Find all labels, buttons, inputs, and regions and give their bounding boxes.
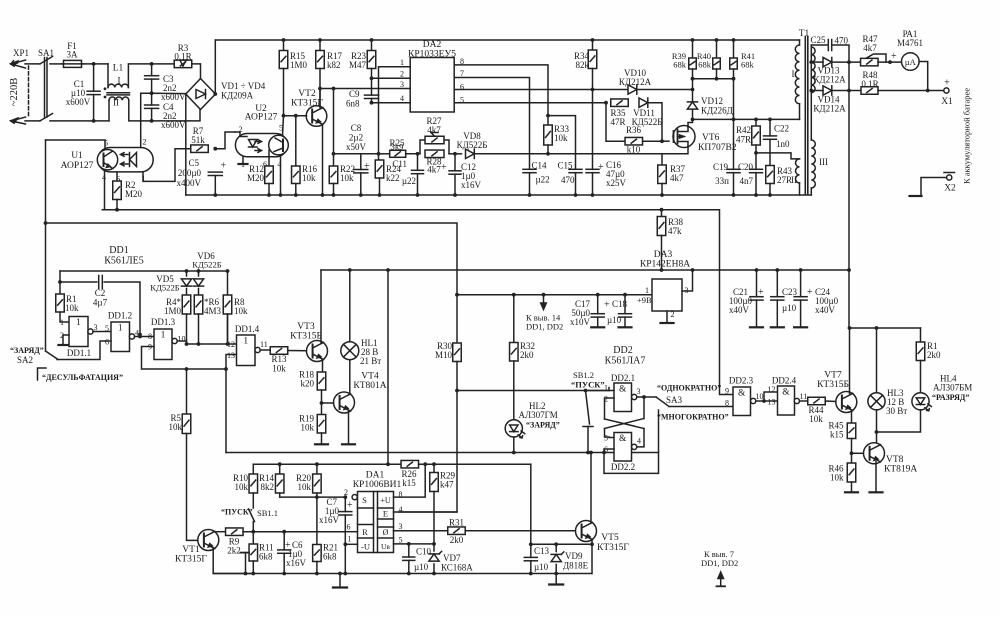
svg-text:3: 3 <box>637 387 641 396</box>
svg-text:DD1: DD1 <box>109 245 128 256</box>
label R5 value <box>169 422 183 432</box>
wire R41 top <box>733 40 735 58</box>
capacitor C11 <box>412 170 424 173</box>
svg-text:7: 7 <box>460 69 464 78</box>
label R26 <box>401 469 417 479</box>
junction R4 bottom <box>185 342 189 346</box>
svg-text:DD1, DD2: DD1, DD2 <box>701 558 738 568</box>
wire VD5 top <box>186 271 188 276</box>
wire R42 bottom <box>755 145 757 169</box>
label DD2 type <box>605 356 646 367</box>
svg-text:КД209А: КД209А <box>221 91 254 101</box>
junction HL3 top <box>875 326 879 330</box>
junction VD12 top <box>691 88 695 92</box>
resistor R47 <box>861 58 879 66</box>
wire +9V line <box>457 294 652 296</box>
label R16 <box>302 164 318 174</box>
svg-text:8: 8 <box>725 399 729 408</box>
svg-text:2µ2: 2µ2 <box>349 133 363 143</box>
wire R32 to HL2 <box>513 361 515 420</box>
svg-text:М20: М20 <box>247 173 265 183</box>
wire L1 bottom entry <box>108 100 110 121</box>
junction R37 bottom <box>660 193 664 197</box>
wire T1 sec to III <box>810 91 812 141</box>
label R45 value <box>830 430 844 440</box>
label DA3 <box>654 250 673 260</box>
svg-text:DD2.2: DD2.2 <box>611 462 635 472</box>
wire VT5 emitter <box>591 540 593 574</box>
wire DD1.3 pin9 <box>142 347 227 370</box>
capacitor C24 <box>794 297 807 300</box>
resistor R16 <box>292 166 301 184</box>
wire DA1 pin5 <box>394 543 435 545</box>
wire R45 bottom <box>851 439 853 454</box>
label R37 <box>670 164 686 174</box>
wire to VT6 gate <box>662 140 669 142</box>
label T1 winding II <box>791 175 797 185</box>
capacitor C4 <box>145 105 159 108</box>
wire VD8 to R33 <box>475 153 549 155</box>
wire R34 to line <box>592 69 594 90</box>
label C18 plus <box>604 300 610 311</box>
label C22 value <box>776 139 790 149</box>
svg-text:x40V: x40V <box>815 305 836 315</box>
junction R29 top <box>432 462 436 466</box>
junction VD7 bottom <box>432 572 436 576</box>
transistor VT1 <box>198 530 219 551</box>
wire R46 bottom <box>851 482 853 492</box>
junction stub bottom <box>244 572 248 576</box>
junction C3 C4 mid <box>150 91 154 95</box>
wire R48 out <box>878 90 944 92</box>
svg-text:+: + <box>441 162 447 173</box>
label R26 value <box>402 478 416 488</box>
resistor R6 <box>194 295 203 314</box>
svg-text:1М0: 1М0 <box>164 306 182 316</box>
capacitor C12 <box>449 171 461 174</box>
label DD2.1 pin1 <box>604 384 608 393</box>
svg-text:КТ801А: КТ801А <box>353 381 386 391</box>
svg-text:8: 8 <box>148 332 152 341</box>
label mnogokratno <box>657 413 729 422</box>
label SA3 <box>666 395 683 405</box>
label C20 <box>738 162 754 172</box>
svg-text:10k: 10k <box>234 306 248 316</box>
svg-text:47R: 47R <box>736 135 751 145</box>
label K vyv 7b <box>701 558 738 568</box>
label R1r value <box>927 350 941 360</box>
junction R34 top <box>591 38 595 42</box>
capacitor C3 <box>145 76 159 79</box>
wire R17 bottom <box>319 69 321 107</box>
label R21 <box>323 543 338 553</box>
label DD2.1 pin3 <box>637 387 641 396</box>
label R21 value <box>323 552 337 562</box>
wire HL2 bottom <box>513 437 515 453</box>
label R33 value <box>554 133 568 143</box>
label DA2 pin1 <box>400 58 404 67</box>
wire C7 bottom <box>344 515 346 574</box>
wire C4 top <box>151 93 153 105</box>
label C13 <box>534 546 550 556</box>
svg-text:&: & <box>619 434 627 444</box>
junction C18 top <box>623 293 627 297</box>
label C3 value2 <box>161 92 186 102</box>
label VT4 <box>361 372 379 382</box>
junction pin8 rail <box>423 462 427 466</box>
wire C8 top <box>360 154 362 170</box>
label R24 value <box>386 173 400 183</box>
label DD1 type <box>104 256 144 267</box>
label HL3 value2 <box>886 406 907 416</box>
label R28 value <box>427 165 441 175</box>
junction R34 bottom <box>591 88 595 92</box>
wire R34 top <box>592 40 594 50</box>
svg-text:+9В: +9В <box>637 295 652 305</box>
wire U2 pin2 <box>235 132 247 137</box>
wire C2 drop joint <box>139 335 141 337</box>
label R44 value <box>809 414 823 424</box>
svg-text:II: II <box>791 175 797 185</box>
label DD2.3 pin10 <box>756 392 764 401</box>
resistor R28 <box>425 150 444 158</box>
junction branch rail <box>386 462 390 466</box>
wire C16 bottom <box>592 173 594 195</box>
junction emitter tee <box>590 542 594 546</box>
svg-text:DD2: DD2 <box>613 345 632 356</box>
resistor R31 <box>448 527 466 535</box>
wire C10 top <box>408 544 410 557</box>
wire SB1.2 bottom <box>587 427 589 453</box>
label R47 <box>862 34 878 44</box>
wire DA2 pin6 <box>454 89 629 91</box>
svg-text:µА: µА <box>905 57 917 67</box>
label R35 <box>610 108 626 118</box>
resistor R22 <box>329 166 338 184</box>
capacitor C10 <box>403 557 415 560</box>
wire SA2 to DD1.2 <box>57 341 111 360</box>
label DA2 pin4 <box>400 94 404 103</box>
label R48 value <box>861 79 878 89</box>
label R1r <box>927 341 938 351</box>
junction R11 bottom <box>251 572 255 576</box>
transformer T1 core <box>805 37 808 195</box>
wire DA2 pin5 <box>454 102 606 104</box>
label C14 <box>532 161 548 171</box>
wire R17 top <box>319 40 321 51</box>
svg-text:VD12: VD12 <box>701 96 723 106</box>
junction C2 to gate line <box>138 333 142 337</box>
inductor L1 core <box>107 93 130 95</box>
terminal X2 <box>944 173 955 181</box>
wire VT4 emitter <box>348 411 350 444</box>
label DD2 <box>613 345 632 356</box>
label R32 <box>520 341 535 351</box>
svg-text:C22: C22 <box>774 124 789 134</box>
svg-text:2: 2 <box>143 138 147 147</box>
diode VD13 <box>823 57 832 66</box>
label VD10 type <box>619 77 652 87</box>
label U2 <box>255 104 267 114</box>
wire DA1 pin6 line <box>345 531 357 533</box>
label C19 <box>713 162 729 172</box>
label R14 value <box>261 482 275 492</box>
label PA1 type <box>897 38 923 48</box>
junction R41 bar <box>732 77 736 81</box>
capacitor C21 <box>750 297 763 300</box>
wire C1 bottom <box>93 95 95 121</box>
wire VT7 collector <box>849 328 851 394</box>
wire C23 top <box>776 270 778 297</box>
wire C2 right <box>104 282 140 335</box>
junction C21 top <box>755 268 759 272</box>
wire R15 top <box>283 40 285 51</box>
junction C5 bottom <box>213 193 217 197</box>
resistor R39 <box>689 58 697 69</box>
wire R19 bottom <box>321 433 323 444</box>
label HL2 zaryad <box>526 421 560 430</box>
gate DD2.3 <box>733 387 756 416</box>
label R19 value <box>301 423 315 433</box>
wire DD2.1 pin1 <box>609 388 614 391</box>
wire rail to 328 <box>848 270 850 328</box>
wire VT2 collector line <box>320 88 410 90</box>
label R40 value <box>698 60 712 70</box>
junction SB1.2 top <box>584 389 588 393</box>
resistor R37 <box>658 165 667 184</box>
junction pin13 node <box>224 367 228 371</box>
svg-text:Ø: Ø <box>383 528 389 537</box>
capacitor C20 <box>750 169 763 172</box>
svg-text:~220В: ~220В <box>9 78 20 106</box>
wire C6 top <box>283 532 285 550</box>
svg-text:µ10: µ10 <box>414 562 429 572</box>
wire left rail <box>45 140 47 351</box>
resistor R21 <box>313 545 322 562</box>
label DD1.4 <box>235 324 260 334</box>
svg-text:3: 3 <box>94 323 98 332</box>
diode VD5 <box>181 279 191 286</box>
resistor R11 <box>249 544 257 561</box>
svg-text:+: + <box>807 287 813 298</box>
resistor R23 <box>367 51 376 69</box>
label R5 <box>170 413 181 423</box>
label R46 <box>828 464 844 474</box>
label R43 value <box>777 175 792 185</box>
diode VD6 <box>193 279 203 286</box>
label R17 <box>327 51 343 61</box>
label C15 <box>558 161 574 171</box>
svg-text:DD2.1: DD2.1 <box>611 373 635 383</box>
label C13 value <box>534 562 549 572</box>
wire R13 to VT3 <box>288 350 307 352</box>
junction C10 bottom <box>407 572 411 576</box>
label C24 value <box>815 296 839 306</box>
svg-text:DD1.1: DD1.1 <box>67 348 91 358</box>
wire DD2.3 out <box>756 400 764 402</box>
wire mid bus <box>226 452 659 454</box>
wire C3 top <box>151 64 153 76</box>
label C3 value <box>163 83 177 93</box>
wire C4 bottom <box>151 108 153 121</box>
gate DD1.3 <box>154 329 177 360</box>
svg-text:6k8: 6k8 <box>259 552 273 562</box>
label VD9 type <box>563 561 589 571</box>
junction R22 node <box>332 87 336 91</box>
svg-text:x16V: x16V <box>319 515 340 525</box>
label VD1-VD4 type <box>221 91 254 101</box>
label odnokratno <box>657 384 721 393</box>
label R14 <box>259 473 275 483</box>
label C22 <box>774 124 789 134</box>
wire C25 out <box>833 45 849 62</box>
svg-text:VT4: VT4 <box>361 372 379 382</box>
wire R23 to C9 <box>371 78 373 95</box>
label R38 value <box>668 226 682 236</box>
resistor R29 <box>430 473 439 492</box>
resistor R30 <box>453 343 462 362</box>
svg-text:К аккумуляторной батарее: К аккумуляторной батарее <box>962 88 972 184</box>
junction R16 bottom <box>294 193 298 197</box>
capacitor C7 <box>339 512 352 515</box>
svg-text:2: 2 <box>671 310 675 319</box>
label R41 <box>741 51 755 61</box>
wire R15 bottom <box>283 69 285 116</box>
label HL4 <box>940 374 957 384</box>
label HL1 <box>361 338 378 348</box>
resistor R27 <box>425 133 444 144</box>
wire R22 top link <box>333 89 335 167</box>
junction R8 top <box>226 269 230 273</box>
wire C20 bottom <box>755 173 757 195</box>
connector XP1 arrowheads <box>11 61 18 123</box>
label R25 value <box>391 142 404 152</box>
resistor R48 <box>861 87 878 95</box>
resistor R41 <box>730 58 738 69</box>
label U1 pin1 <box>142 174 146 183</box>
wire C24 top <box>800 270 802 297</box>
wire VT6 drain <box>688 119 693 127</box>
label C20 value <box>740 176 754 186</box>
wire T1 III bottom <box>810 188 812 195</box>
wire C18 top <box>624 295 626 314</box>
label DA2 pin8 <box>460 57 464 66</box>
label DA2 pin5 <box>460 96 464 105</box>
svg-text:&: & <box>782 388 790 398</box>
junction R2 bottom <box>115 208 119 212</box>
wire rail to loop <box>434 463 531 465</box>
wire C12 top <box>454 154 456 171</box>
wire VD9 ground stub <box>555 574 557 585</box>
svg-text:C13: C13 <box>534 546 550 556</box>
wire source to R37 <box>661 154 663 165</box>
resistor R33 <box>544 125 553 145</box>
svg-text:4М3: 4М3 <box>204 306 222 316</box>
label C8 value2 <box>346 142 367 152</box>
label HL2 <box>529 401 546 411</box>
label VD12 type <box>701 106 733 116</box>
svg-text:µ22: µ22 <box>402 176 416 186</box>
diode VD14 <box>823 86 832 95</box>
wire R40 top <box>716 40 718 58</box>
junction sec tap1 <box>809 60 813 64</box>
label DD1.3 pin8 <box>148 332 152 341</box>
svg-text:КТ315Б: КТ315Б <box>817 380 849 390</box>
label DD1.4 pin12 <box>227 340 235 349</box>
wire top to R3 <box>152 63 174 65</box>
label T1 winding I <box>792 69 795 79</box>
svg-text:Uв: Uв <box>381 542 390 551</box>
label R8 value <box>234 306 248 316</box>
label C5 value2 <box>177 178 202 188</box>
lamp HL1 <box>341 342 359 360</box>
resistor R25 <box>390 150 406 157</box>
svg-text:VD7: VD7 <box>443 553 461 563</box>
junction C12 top <box>453 152 457 156</box>
wire U1 pin5 <box>46 140 106 148</box>
label C1 value u10 <box>71 88 86 98</box>
svg-text:13: 13 <box>768 398 776 407</box>
wire R11 bottom <box>252 561 254 574</box>
wire C5 bottom <box>214 176 216 196</box>
svg-text:10: 10 <box>178 335 186 344</box>
wire U1 pin6 to R2 <box>116 172 118 181</box>
svg-text:XP1: XP1 <box>13 48 29 58</box>
svg-text:2k0: 2k0 <box>520 350 534 360</box>
label DD1.2 pin6 <box>105 338 109 347</box>
svg-text:+: + <box>221 161 227 172</box>
wire R29 bottom <box>433 492 435 544</box>
svg-text:1: 1 <box>161 331 166 341</box>
svg-text:4k7: 4k7 <box>863 43 877 53</box>
wire bottom bus <box>213 573 592 575</box>
wire C18 bottom <box>624 317 626 326</box>
label C5 <box>188 158 199 168</box>
svg-text:470: 470 <box>561 175 575 185</box>
wire pin13 bus down <box>225 369 227 453</box>
resistor R44 <box>808 397 826 405</box>
svg-text:R31: R31 <box>449 518 464 528</box>
label R25 <box>389 138 405 148</box>
svg-text:DD2.3: DD2.3 <box>729 376 754 386</box>
label VT3 type <box>290 332 322 342</box>
wire minus rail <box>186 194 812 196</box>
label SA1 <box>38 48 54 58</box>
wire R bar <box>693 78 734 80</box>
label R16 value <box>302 173 316 183</box>
svg-text:C19: C19 <box>713 162 729 172</box>
svg-text:10k: 10k <box>302 173 316 183</box>
svg-text:x40V: x40V <box>729 305 750 315</box>
junction pin6 bus <box>602 451 606 455</box>
terminal X1 <box>944 88 949 93</box>
svg-text:68k: 68k <box>741 60 755 70</box>
svg-text:10: 10 <box>756 392 764 401</box>
wire DA3 pin2 <box>666 311 668 322</box>
junction R32 top <box>512 293 516 297</box>
label R27 <box>426 116 442 126</box>
wire R38 bottom <box>661 236 663 271</box>
label U2 pin2 <box>239 125 243 134</box>
label DD1.2 <box>108 311 132 321</box>
svg-text:2: 2 <box>400 70 404 79</box>
wire supply down <box>456 295 458 343</box>
svg-text:+: + <box>347 500 353 511</box>
label VT5 type <box>597 543 629 553</box>
wire ref rail <box>530 464 532 544</box>
junction R5 line <box>185 367 189 371</box>
label DA1 pin5 <box>399 536 403 545</box>
